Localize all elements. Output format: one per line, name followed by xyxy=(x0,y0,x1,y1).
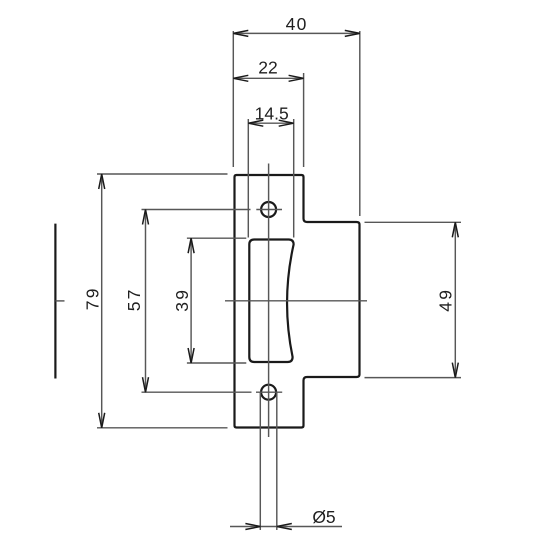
dimension 14.5 line xyxy=(248,122,293,124)
dimension 22 arrow right xyxy=(289,75,304,81)
dimension 39 extension line top xyxy=(187,237,246,239)
dimension diameter 5 extension line right xyxy=(276,392,278,530)
dimension 49 arrow top xyxy=(452,222,458,237)
dimension 14.5 arrow left xyxy=(248,120,263,126)
dimension 39 arrow bottom xyxy=(188,348,194,363)
dimension 49 line xyxy=(454,222,456,377)
dimension 57 line xyxy=(145,210,147,393)
dimension 49 extension line top xyxy=(365,221,462,223)
dimension 79 arrow bottom xyxy=(99,413,105,428)
screw hole top xyxy=(261,202,276,217)
svg-text:57: 57 xyxy=(124,287,144,311)
dimension 49 arrow bottom xyxy=(452,363,458,378)
svg-text:39: 39 xyxy=(172,288,192,312)
dimension 22 arrow left xyxy=(233,75,248,81)
svg-text:22: 22 xyxy=(258,58,277,78)
dimension 79 extension line top xyxy=(97,173,228,175)
dimension diameter 5 arrow left xyxy=(245,524,260,530)
dimension diameter 5 arrow right xyxy=(277,524,292,530)
door edge reference line xyxy=(54,224,56,379)
dimension 79 extension line bottom xyxy=(97,427,228,429)
vertical centerline xyxy=(268,164,270,438)
svg-text:79: 79 xyxy=(82,286,102,310)
dimension 79 line xyxy=(101,174,103,428)
dimension diameter 5 extension line left xyxy=(259,392,261,530)
latch opening xyxy=(249,240,293,363)
screw hole bottom xyxy=(261,385,276,400)
screw hole bottom crosshair xyxy=(256,391,282,393)
dimension 14.5 arrow right xyxy=(279,120,294,126)
dimension 39 arrow top xyxy=(188,238,194,253)
door edge tick xyxy=(55,300,64,302)
dimension 79 arrow top xyxy=(99,174,105,189)
horizontal centerline xyxy=(225,300,367,302)
svg-text:Ø5: Ø5 xyxy=(312,507,335,527)
dimension 14.5 extension line right xyxy=(293,119,295,238)
dimension 14.5 extension line left xyxy=(247,119,249,238)
dimension 57 extension line bottom xyxy=(142,391,252,393)
dimension 57 extension line top xyxy=(142,209,251,211)
dimension 40 arrow right xyxy=(345,30,360,36)
dimension 40 arrow left xyxy=(233,30,248,36)
dimension 57 arrow bottom xyxy=(143,377,149,392)
dimension 40 line xyxy=(233,32,359,34)
svg-text:40: 40 xyxy=(286,14,308,34)
dimension 22 extension line right xyxy=(303,73,305,167)
svg-text:49: 49 xyxy=(435,288,455,312)
dimension 57 arrow top xyxy=(143,210,149,225)
dimension 40 extension line right xyxy=(359,31,361,216)
dimension 22 line xyxy=(233,77,303,79)
dimension 39 line xyxy=(190,238,192,363)
dimension diameter 5 line xyxy=(230,526,342,528)
plate outline xyxy=(235,175,360,428)
dimension 49 extension line bottom xyxy=(365,377,462,379)
svg-text:14.5: 14.5 xyxy=(255,104,289,124)
dimension 39 extension line bottom xyxy=(187,362,246,364)
screw hole top crosshair xyxy=(256,209,282,211)
dimension 40 extension line left xyxy=(232,31,234,167)
